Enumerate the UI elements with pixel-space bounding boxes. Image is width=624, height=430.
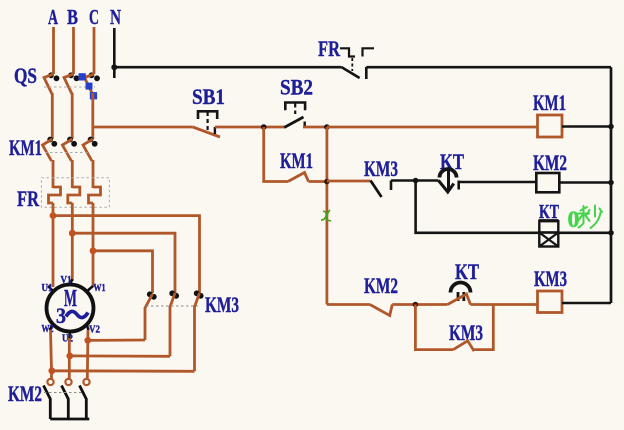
wire phase A to KM3 pole3 [53,216,200,293]
button SB2 NO contact [284,117,305,128]
wire KM3 NC to KT contact [391,179,439,182]
wire phase B to KM3 pole2 [72,233,175,293]
contactor KM2 pole2 blade [62,386,69,420]
svg-text:W1: W1 [94,283,106,294]
relay FR heater B [68,187,80,203]
coil KM2 label [533,150,567,175]
wire KM2 aux to branch junction [392,303,447,306]
wire phase C FR to motor W1 [92,203,95,287]
coil KM2 [536,173,559,192]
wire U2 to KM3 pole2 [70,354,170,357]
switch QS pole B [64,72,79,94]
coil KM1 [538,115,563,137]
coil KT box [539,221,558,246]
wire motor V2 down [86,330,89,379]
wire phase B FR to motor V1 [71,203,74,281]
svg-text:C: C [89,5,99,29]
motor M circle [47,285,94,332]
node phase B tap junction [69,230,76,237]
coil KM3 label [534,266,567,291]
contact KT row4 chevron [448,294,471,305]
wire KM2 coil to rail [559,181,611,184]
wire right rail [610,67,613,303]
node N label [110,5,121,29]
motor label V1 [61,275,72,286]
contactor KM1 linkage dashed [45,152,90,154]
svg-text:FR: FR [318,36,341,61]
wire phase C to KM3 pole1 [93,251,153,293]
relay FR dashed box [41,178,109,208]
node phase A tap junction [50,212,57,219]
contactor KM2 pole3 blade [80,386,87,420]
svg-text:KM1: KM1 [9,135,42,160]
contactor KM3 main pole3 [194,290,204,371]
button SB2 label [280,75,313,100]
contact KM3 NC label [364,156,398,181]
svg-text:KM2: KM2 [8,381,42,406]
contact KM1 aux NO chevron [288,173,309,182]
wire drop SB2-left to row2 [264,127,288,182]
selection handle blue square 1 [79,73,86,80]
relay FR NC contact [341,67,366,79]
node U2 junction [66,353,73,360]
wire phase C KM1 to FR [92,160,95,188]
svg-text:KT: KT [455,259,479,284]
wire KT coil to rail [558,232,611,235]
motor label U1 [42,283,53,294]
motor text 3 [56,303,66,328]
contactor KM3 main pole2 [169,290,179,356]
svg-text:SB2: SB2 [280,75,313,100]
contactor KM3 linkage dashed [146,305,198,307]
contactor KM2 main label [8,381,42,406]
motor label V2 [89,325,100,336]
switch QS pole C [85,72,100,94]
node rail KM1 [608,124,614,130]
svg-text:QS: QS [14,63,37,88]
wire FR contact to right rail [366,66,611,69]
svg-text:FR: FR [17,186,40,211]
switch QS pole A [44,72,59,94]
node rail KT [608,230,614,236]
contactor KM1 main pole C [83,137,98,161]
wire row4 start [327,303,370,306]
contactor KM1 main label [9,135,42,160]
contactor KM1 main pole B [62,137,77,161]
wire phase A QS to KM1 [51,93,54,139]
contactor KM2 terminal circle 1 [47,379,53,385]
wire SB1 to SB2 [215,126,284,129]
wire SB2 to junction [303,126,327,129]
contactor KM2 terminal circle 2 [65,379,71,385]
motor label U2 [62,334,73,345]
motor terminal tick U1 [48,286,54,292]
motor letter M [64,286,77,312]
svg-text:U1: U1 [42,283,53,294]
contact KM1 aux label [280,148,313,173]
node V2 junction [84,337,91,344]
contactor KM3 main pole1 [145,291,157,340]
button SB1 actuator [198,111,217,131]
wire phase C QS to KM1 [91,93,94,139]
svg-text:B: B [67,5,78,29]
motor label W1 [94,283,106,294]
contact KT row4 label [455,259,479,284]
wire KT contact to KM2 coil [459,181,537,184]
contact KT row4 delay arc [451,283,471,302]
node row2 junction [324,179,330,185]
svg-text:A: A [48,5,59,29]
contact KM2 aux label [364,273,398,298]
contact KM2 aux NO [370,305,392,316]
svg-text:KM2: KM2 [533,150,567,175]
contactor KM3 main label [205,292,239,317]
wire motor U2 down [68,338,71,379]
motor tilde [66,311,88,317]
motor terminal tick V2 [87,324,89,330]
motor terminal tick V1 [70,279,72,285]
svg-text:0: 0 [568,207,580,232]
node SB2 right junction [324,124,330,130]
node branch junction row4 [413,302,419,308]
motor terminal tick U2 [68,332,71,339]
svg-text:KM3: KM3 [205,292,239,317]
wire KT row4 to KM3 coil [471,303,538,306]
coil KM3 [538,291,563,313]
wire drop SB2-right through row2 to row4 [325,127,328,305]
motor terminal tick W2 [50,324,54,330]
wire control row1 from phase C [93,126,193,129]
node C label [89,5,99,29]
wire N to FR contact [114,66,341,69]
contactor KM2 terminal circle 3 [83,379,89,385]
svg-text:V2: V2 [89,325,100,336]
wire KM3 coil to rail [562,302,611,305]
contactor KM1 main pole A [43,137,58,161]
node A label [48,5,59,29]
contactor KM2 linkage dashed [44,392,83,394]
wire phase A FR to motor U1 [52,203,55,287]
green mark chi [321,210,331,221]
switch QS label [14,63,37,88]
relay FR heater C [89,187,101,203]
svg-text:KM1: KM1 [533,90,566,115]
relay FR contact actuator [340,48,374,71]
wire motor W2 down [51,330,52,379]
node B label [67,5,78,29]
motor label W2 [42,324,54,335]
wire KM1 aux to junction [309,180,327,183]
wire KM1 coil to rail [562,125,611,128]
contact KT delayed NO [439,169,459,192]
coil KT label underlined [539,201,560,223]
contact KT delayed label [440,149,464,174]
node phase C tap junction [90,247,97,254]
wire phase A top [52,27,55,74]
button SB1 NC contact [193,127,220,137]
button SB2 actuator [285,103,305,115]
svg-text:KM1: KM1 [280,148,313,173]
relay FR heater A [49,187,61,203]
node KT branch junction [413,178,419,184]
selection handle blue square 3 [90,92,97,99]
wire phase B QS to KM1 [71,93,74,139]
svg-text:KM3: KM3 [364,156,398,181]
svg-text:SB1: SB1 [192,84,225,109]
svg-text:N: N [110,5,121,29]
coil KM1 label [533,90,566,115]
relay FR contact label [318,36,341,61]
svg-text:KM2: KM2 [364,273,398,298]
contact KM3 aux NO [453,341,474,351]
wire row1 to KM1 coil [327,126,538,129]
node N junction [111,64,117,70]
contactor KM2 star bar [50,418,89,421]
node SB2 left junction [261,124,267,130]
svg-text:KM3: KM3 [534,266,567,291]
contactor KM2 pole1 blade [44,386,51,420]
wire phase B KM1 to FR [71,160,74,188]
selection handle blue square 2 [86,83,93,90]
svg-text:V1: V1 [61,275,72,286]
timer 0s label [568,206,603,233]
wire phase B top [72,27,75,74]
wire phase C top [93,27,96,74]
contact KM3 NC [371,181,392,198]
contact KM3 aux label [449,320,483,345]
wire phase A KM1 to FR [52,160,55,188]
switch QS linkage dashed [44,86,95,88]
node rail KM2 [608,180,614,186]
wire KM3 aux branch [415,305,453,350]
wire KM3 aux to branch end [474,305,494,350]
wire W2 to KM3 pole3 [52,369,195,372]
wire row2 junction to KM3 contact [327,180,371,183]
relay FR label [17,186,40,211]
wire N vertical [113,28,116,78]
motor terminal tick W1 [86,286,93,292]
wire KT coil branch [416,181,540,233]
svg-text:U2: U2 [62,334,73,345]
node W2 junction [48,367,55,374]
wire V2 to KM3 pole1 [88,339,145,342]
button SB1 label [192,84,225,109]
